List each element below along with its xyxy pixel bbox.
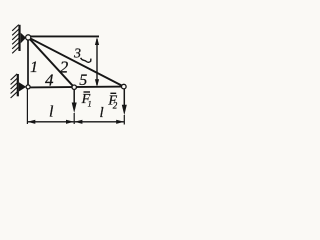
rod 3 (diagonal A-D) — [28, 37, 124, 86]
svg-text:1: 1 — [88, 100, 92, 109]
node C — [72, 85, 76, 89]
top horizontal member A-E — [28, 35, 99, 37]
force F1 label — [81, 92, 92, 109]
wall hatching top — [12, 25, 19, 54]
pin A — [26, 35, 31, 40]
pin support bracket A — [21, 33, 26, 44]
svg-text:1: 1 — [30, 59, 38, 76]
bottom chord B-D (rods 4 and 5) — [28, 86, 124, 89]
dimension extension line below B — [26, 89, 28, 124]
rod 2 (diagonal A-C) — [28, 37, 74, 87]
rod 1 (vertical A-B) — [27, 37, 29, 87]
vertical double-headed arrow at x=97 — [95, 37, 99, 87]
force F2 label — [107, 93, 117, 110]
wall hatching bottom — [11, 74, 18, 98]
svg-text:3: 3 — [73, 47, 81, 62]
pin support bracket B — [19, 82, 26, 91]
svg-text:4: 4 — [45, 70, 54, 89]
dimension extension line below D/F2 — [123, 115, 125, 125]
pin B — [26, 85, 30, 89]
svg-text:l: l — [100, 105, 104, 121]
force F1 arrow — [72, 89, 77, 113]
svg-text:5: 5 — [79, 72, 87, 89]
dimension extension line below C/F1 — [73, 113, 75, 124]
svg-text:2: 2 — [113, 100, 118, 110]
leader squiggle from label 3 — [81, 58, 91, 62]
node D — [122, 84, 127, 89]
force F2 arrow — [122, 89, 127, 115]
dimension line segment 1 (B to C) — [27, 120, 74, 124]
svg-text:l: l — [49, 104, 54, 121]
svg-text:2: 2 — [60, 58, 69, 77]
dimension line segment 2 (C to D) — [74, 120, 124, 124]
